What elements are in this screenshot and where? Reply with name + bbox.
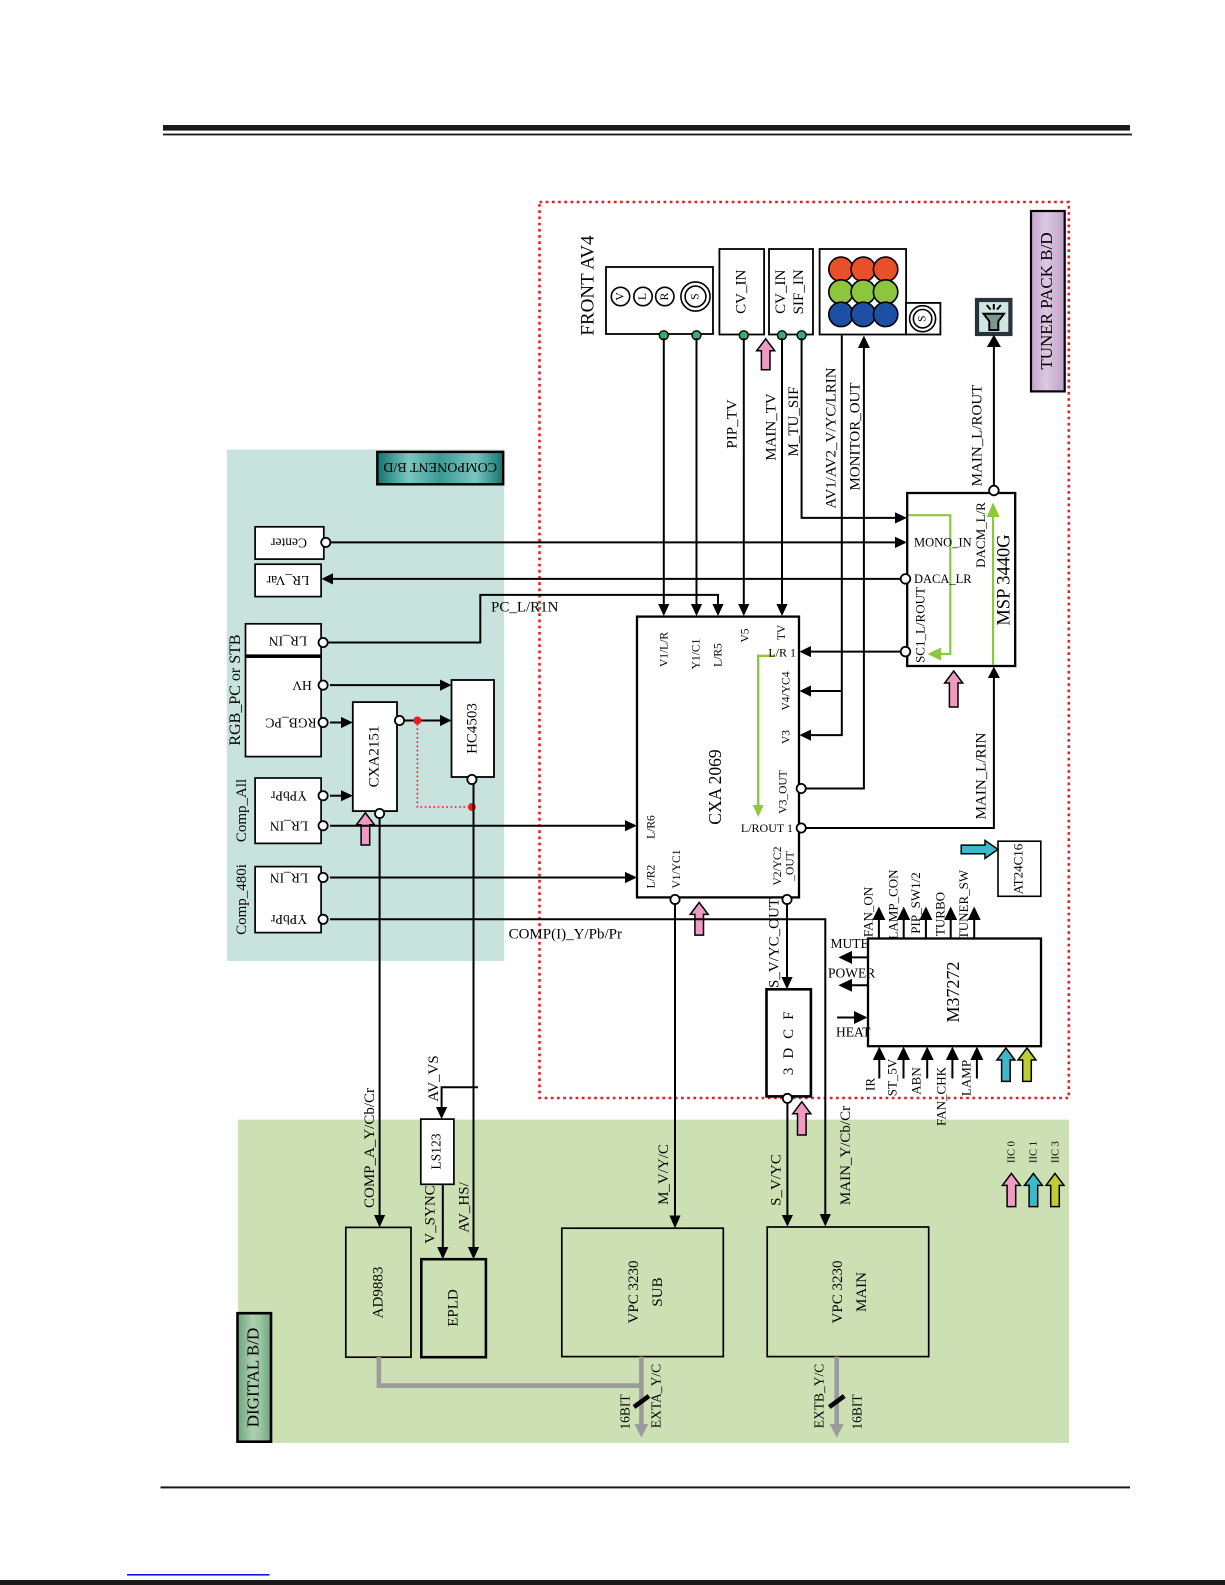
svg-text:VPC 3230: VPC 3230 — [830, 1261, 846, 1324]
svg-text:TURBO: TURBO — [933, 892, 948, 936]
svg-text:PIP_SW1/2: PIP_SW1/2 — [908, 872, 923, 933]
chip VPC 3230 SUB — [562, 1228, 724, 1356]
svg-text:V_SYNC: V_SYNC — [423, 1185, 439, 1243]
M37272 input LAMP — [970, 1047, 983, 1079]
svg-text:MAIN_TV: MAIN_TV — [764, 393, 780, 461]
port circle CXA2069 V1/YC1 — [670, 895, 679, 904]
M37272 input IR — [873, 1047, 886, 1079]
green terminal dot V/LR — [659, 331, 668, 340]
svg-text:SUB: SUB — [650, 1277, 666, 1306]
svg-text:FRONT AV4: FRONT AV4 — [578, 235, 599, 336]
svg-text:S: S — [917, 315, 929, 321]
M37272 output PIP_SW1/2 — [919, 907, 932, 939]
port circle CXA2151 bottom — [375, 809, 384, 818]
chip CXA2151 — [353, 702, 397, 811]
svg-text:ABN: ABN — [909, 1067, 924, 1095]
svg-text:CXA2151: CXA2151 — [367, 726, 383, 788]
M37272 output LAMP_CON — [897, 907, 910, 939]
svg-text:IIC 1: IIC 1 — [1029, 1141, 1040, 1163]
red dotted feedback CXA2151 to HC4503 output — [417, 724, 470, 807]
chip LS123 — [421, 1119, 454, 1184]
M37272 output TURBO — [944, 907, 957, 939]
pink arrow below 3DCF — [793, 1102, 811, 1135]
svg-text:3 D C F: 3 D C F — [781, 1009, 797, 1075]
teal arrow into AT24C16 — [961, 840, 998, 858]
green arrowhead DACM_L/R — [987, 503, 1000, 518]
svg-text:FAN_ON: FAN_ON — [861, 886, 876, 937]
M37272 output POWER — [838, 979, 868, 992]
svg-text:S_V/YC: S_V/YC — [769, 1154, 785, 1206]
connector box S-video — [906, 303, 940, 335]
port circle Center — [321, 538, 330, 547]
svg-text:L/R 1: L/R 1 — [768, 646, 796, 660]
port circle 3DCF bottom — [783, 1094, 792, 1103]
svg-text:MAIN_L/RIN: MAIN_L/RIN — [974, 733, 990, 820]
box Comp_480i — [255, 867, 321, 933]
banner DIGITAL B/D — [238, 1313, 272, 1442]
wire PIP_TV CV_IN to CXA2069 V5 — [738, 338, 749, 616]
wire CXA2069 V1/YC1 M_V/Y/C to VPC3230 SUB — [669, 903, 680, 1228]
divider RGB box — [246, 654, 322, 658]
svg-text:YPbPr: YPbPr — [270, 789, 307, 804]
port circle Comp_480i YPbPr — [319, 915, 328, 924]
wire MAIN_L/ROUT from MSP top to speaker — [987, 335, 1001, 486]
wire CXA2151 out to HC4503 — [404, 715, 452, 726]
svg-text:MAIN_Y/Cb/Cr: MAIN_Y/Cb/Cr — [838, 1106, 854, 1205]
M37272 input HEAT — [837, 1011, 867, 1024]
wire CXA2151 COMP_A_Y/Cb/Cr to AD9883 — [374, 817, 385, 1227]
wire Comp_All YPbPr to CXA2151 — [330, 790, 353, 801]
svg-text:EXTB_Y/C: EXTB_Y/C — [812, 1364, 827, 1429]
svg-text:RGB_PC: RGB_PC — [265, 716, 316, 731]
port circle CXA2069 V3_OUT — [797, 784, 806, 793]
svg-text:DACM_L/R: DACM_L/R — [973, 502, 988, 568]
wire MSP SC1_L/ROUT to CXA2069 L/R1 — [800, 646, 901, 657]
red junction dot B — [468, 803, 476, 811]
wire Comp_All LR_IN to CXA2069 L/R6 — [330, 820, 637, 831]
gray bus arrowhead EXTB — [830, 1424, 844, 1438]
port circle CXA2151 out — [395, 716, 404, 725]
svg-text:R: R — [659, 292, 671, 300]
chip EPLD — [421, 1259, 486, 1357]
svg-text:CXA 2069: CXA 2069 — [705, 749, 725, 825]
wire MONITOR_OUT from CXA2069 V3_OUT up to RCA jacks — [806, 336, 870, 789]
wire MAIN_L/RIN from CXA2069 L/ROUT1 to MSP bottom — [806, 667, 1000, 829]
wire front AV4 S to CXA2069 Y1/C1 — [691, 338, 702, 616]
chip MSP 3440G — [907, 493, 1015, 666]
svg-text:16BIT: 16BIT — [850, 1394, 865, 1430]
svg-text:L/R2: L/R2 — [646, 864, 658, 888]
port circle Comp_All YPbPr — [319, 791, 328, 800]
wire front AV4 video to CXA2069 V1/L/R — [658, 338, 669, 616]
svg-text:LS123: LS123 — [429, 1133, 444, 1169]
box RGB_PC or STB lower — [246, 656, 322, 756]
red junction dot A — [413, 717, 421, 725]
chip VPC 3230 MAIN — [767, 1227, 929, 1357]
svg-text:16BIT: 16BIT — [618, 1394, 633, 1430]
wire MSP DACA_LR to LR_Var — [322, 573, 901, 584]
svg-text:VPC 3230: VPC 3230 — [626, 1261, 642, 1324]
legend pink arrow IIC0 — [1002, 1173, 1020, 1206]
svg-text:TUNER_SW: TUNER_SW — [956, 869, 971, 939]
svg-text:ST_5V: ST_5V — [885, 1058, 900, 1096]
connector box CV_IN SIF_IN — [769, 249, 813, 335]
svg-text:LAMP: LAMP — [959, 1060, 974, 1096]
svg-text:IR: IR — [863, 1078, 878, 1091]
box Comp_All — [255, 778, 321, 843]
M37272 input ST_5V — [897, 1047, 910, 1079]
svg-text:PIP_TV: PIP_TV — [725, 399, 741, 448]
legend yellow arrow IIC3 — [1046, 1173, 1064, 1206]
svg-text:L/R5: L/R5 — [713, 643, 725, 667]
gray 16bit bus AD9883 join EXTA_Y/C — [379, 1357, 642, 1426]
svg-text:L/R6: L/R6 — [646, 815, 658, 839]
svg-text:Center: Center — [271, 536, 307, 551]
green arrowhead SC1_L/ROUT — [928, 648, 942, 661]
svg-text:M_TU_SIF: M_TU_SIF — [786, 386, 802, 456]
svg-text:MONO_IN: MONO_IN — [914, 536, 972, 550]
svg-text:SC1_L/ROUT: SC1_L/ROUT — [913, 587, 928, 663]
port circle Comp_480i LR_IN — [319, 873, 328, 882]
svg-text:HEAT: HEAT — [836, 1025, 871, 1040]
svg-text:M_V/Y/C: M_V/Y/C — [656, 1144, 672, 1205]
svg-text:DIGITAL B/D: DIGITAL B/D — [244, 1328, 263, 1428]
svg-text:Comp_480i: Comp_480i — [234, 864, 250, 935]
svg-text:MAIN: MAIN — [854, 1272, 870, 1312]
box LR_Var — [255, 564, 321, 596]
svg-text:TUNER PACK B/D: TUNER PACK B/D — [1037, 232, 1056, 369]
COMPONENT B/D teal background — [227, 450, 504, 962]
box Center — [255, 527, 324, 559]
banner COMPONENT B/D — [377, 452, 503, 484]
port circle MSP DACA_LR — [901, 574, 911, 584]
port circle MSP SC1_L/ROUT — [901, 647, 911, 657]
banner TUNER PACK B/D — [1031, 211, 1065, 391]
svg-text:AD9883: AD9883 — [371, 1267, 387, 1319]
wire Center to MSP MONO_IN — [330, 537, 907, 548]
svg-text:EPLD: EPLD — [446, 1289, 462, 1327]
bus width slash EXTA — [634, 1396, 649, 1407]
legend teal arrow IIC1 — [1024, 1173, 1042, 1206]
svg-text:EXTA_Y/C: EXTA_Y/C — [649, 1364, 664, 1428]
svg-text:POWER: POWER — [828, 966, 875, 981]
wire HV to HC4503 — [330, 680, 452, 691]
pink arrow below CXA2151 — [356, 813, 374, 845]
svg-text:CV_IN: CV_IN — [773, 270, 789, 314]
svg-text:LR_IN: LR_IN — [269, 634, 307, 649]
wire branch AV_VS to LS123 — [436, 1087, 478, 1119]
header thick rule — [163, 125, 1130, 131]
gray bus arrowhead EXTA — [634, 1424, 648, 1438]
port circle HV — [319, 681, 328, 690]
svg-text:SIF_IN: SIF_IN — [791, 269, 807, 314]
svg-text:MAIN_L/ROUT: MAIN_L/ROUT — [970, 385, 986, 487]
svg-text:MUTE: MUTE — [831, 936, 869, 951]
pink arrow below CXA2069 V1/YC1 — [690, 902, 708, 935]
connector box CV_IN (PIP) — [719, 249, 764, 335]
svg-text:COMP_A_Y/Cb/Cr: COMP_A_Y/Cb/Cr — [362, 1088, 378, 1208]
bottom page bar — [0, 1580, 1225, 1585]
wire RGB_PC to CXA2151 — [330, 717, 353, 728]
chip 3DCF — [767, 989, 811, 1096]
M37272 input FAN_CHK — [946, 1047, 959, 1079]
svg-text:DACA_LR: DACA_LR — [914, 572, 972, 586]
svg-text:Y1/C1: Y1/C1 — [691, 638, 703, 669]
DIGITAL B/D green background — [238, 1120, 1069, 1443]
svg-text:LR_IN: LR_IN — [270, 871, 308, 886]
svg-text:AT24C16: AT24C16 — [1011, 843, 1026, 894]
svg-text:M37272: M37272 — [943, 961, 963, 1022]
connector panel FRONT AV4 V/L/R/S — [606, 267, 713, 334]
box RGB_PC or STB upper LR_IN — [246, 624, 322, 656]
green terminal dot SIF_IN — [797, 331, 806, 340]
svg-text:S: S — [690, 293, 702, 299]
wire Comp_480i YPbPr to VPC3230 MAIN — [330, 919, 831, 1226]
svg-text:YPbPr: YPbPr — [270, 912, 307, 927]
chip AD9883 — [346, 1227, 411, 1357]
green route CXA2069 L/R1 to L/ROUT1 — [758, 656, 775, 805]
svg-text:HV: HV — [292, 678, 312, 693]
svg-text:COMPONENT B/D: COMPONENT B/D — [383, 459, 497, 474]
svg-text:V4/YC4: V4/YC4 — [781, 671, 793, 710]
svg-text:AV1/AV2_V/YC/LRIN: AV1/AV2_V/YC/LRIN — [824, 367, 840, 508]
green terminal dot CV_IN2 — [778, 331, 787, 340]
port circle RGB LR_IN — [319, 638, 328, 647]
svg-text:V3_OUT: V3_OUT — [778, 770, 790, 813]
svg-text:V3: V3 — [781, 730, 793, 744]
svg-text:L: L — [637, 293, 649, 300]
port circle HC4503 bottom — [467, 775, 476, 784]
svg-text:Comp_All: Comp_All — [234, 779, 250, 842]
port circle RGB_PC — [319, 718, 328, 727]
svg-text:AV_HS/: AV_HS/ — [457, 1181, 473, 1232]
pink arrow below CV_IN — [757, 339, 775, 370]
gray 16bit bus EXTB_Y/C from VPC MAIN — [834, 1357, 839, 1426]
M37272 output MUTE — [838, 951, 868, 964]
svg-text:IIC 3: IIC 3 — [1051, 1141, 1062, 1163]
speaker icon — [977, 300, 1010, 334]
green terminal dot CV_IN — [739, 331, 748, 340]
wire 3DCF S_V/YC to VPC3230 MAIN — [782, 1103, 793, 1227]
wire LS123 V_SYNC to EPLD — [437, 1184, 448, 1259]
header thin rule — [163, 134, 1132, 136]
svg-text:MSP 3440G: MSP 3440G — [995, 534, 1015, 625]
green arrowhead L/ROUT1 — [753, 805, 764, 817]
svg-text:TV: TV — [776, 624, 788, 640]
svg-text:AV_VS: AV_VS — [426, 1055, 442, 1101]
svg-text:V1/YC1: V1/YC1 — [671, 849, 683, 888]
svg-text:LAMP_CON: LAMP_CON — [886, 869, 901, 940]
wire CXA2069 V2/YC2_OUT to 3DCF — [781, 903, 792, 989]
svg-text:V2/YC2: V2/YC2 — [772, 846, 784, 885]
svg-text:RGB_PC or STB: RGB_PC or STB — [227, 634, 244, 745]
footer rule — [161, 1486, 1131, 1488]
svg-text:LR_IN: LR_IN — [270, 819, 308, 834]
connector block RCA jacks 3x3 — [820, 249, 907, 335]
svg-text:LR_Var: LR_Var — [266, 573, 309, 588]
wire HC4503 AV_HS/ to EPLD — [468, 783, 479, 1259]
svg-text:V: V — [615, 292, 627, 301]
wire MAIN_TV CV_IN to CXA2069 TV — [776, 338, 787, 616]
svg-text:V5: V5 — [740, 628, 752, 642]
svg-text:CV_IN: CV_IN — [734, 270, 750, 314]
svg-text:S_V/YC_OUT: S_V/YC_OUT — [767, 898, 783, 988]
svg-text:_OUT: _OUT — [785, 851, 797, 881]
M37272 output FAN_ON — [872, 907, 885, 939]
bus width slash EXTB — [829, 1396, 844, 1407]
wire M_TU_SIF SIF_IN to MSP3440G — [802, 338, 907, 524]
wire AV1/AV2_V/YC/LRIN from RCA jacks to CXA2069 V4/YC4 and V3 — [800, 336, 842, 741]
TUNER PACK dashed red boundary — [540, 202, 1069, 1098]
svg-text:V1/L/R: V1/L/R — [659, 632, 671, 667]
svg-text:IIC 0: IIC 0 — [1007, 1141, 1018, 1163]
port circle CXA2069 L/ROUT1 — [797, 823, 806, 832]
port circle CXA2069 V2/YC2_OUT — [782, 895, 791, 904]
green route MSP SC1 internal — [909, 515, 994, 665]
chip HC4503 — [452, 680, 495, 777]
port circle Comp_All LR_IN — [319, 821, 328, 830]
svg-text:MONITOR_OUT: MONITOR_OUT — [848, 382, 864, 490]
M37272 input ABN — [921, 1047, 934, 1079]
svg-text:COMP(I)_Y/Pb/Pr: COMP(I)_Y/Pb/Pr — [509, 927, 622, 943]
pink arrow below MSP3440G — [945, 671, 963, 707]
green terminal dot S — [692, 331, 701, 340]
svg-text:HC4503: HC4503 — [465, 703, 481, 754]
chip AT24C16 — [998, 841, 1041, 896]
yellow-green arrow below M37272 — [1018, 1048, 1036, 1081]
wire Comp_480i LR_IN to CXA2069 L/R2 — [330, 872, 637, 883]
chip CXA 2069 — [637, 617, 799, 898]
chip M37272 — [868, 939, 1041, 1047]
footer blue link line — [127, 1574, 270, 1576]
port circle MSP MAIN_L/ROUT top — [989, 486, 999, 496]
svg-text:FAN_CHK: FAN_CHK — [934, 1066, 949, 1126]
M37272 output TUNER_SW — [968, 907, 981, 939]
svg-text:L/ROUT 1: L/ROUT 1 — [741, 821, 793, 835]
svg-text:PC_L/R1N: PC_L/R1N — [491, 600, 559, 616]
teal arrow below M37272 — [997, 1048, 1015, 1081]
wire PC_L/RIN from RGB LR_IN to CXA2069 L/R5 — [328, 595, 724, 643]
